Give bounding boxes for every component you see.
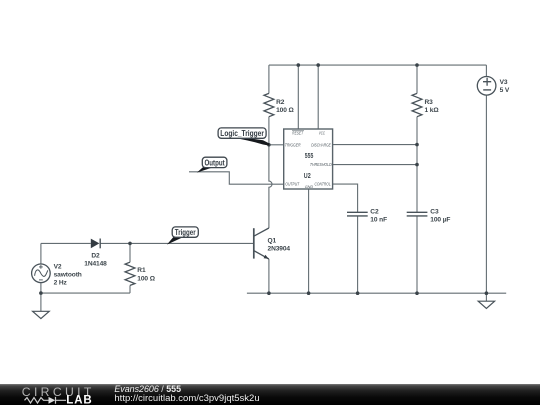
label R2 value xyxy=(276,99,294,114)
svg-text:OUTPUT: OUTPUT xyxy=(285,181,299,187)
wire output pin xyxy=(189,172,284,184)
wire D2 anode xyxy=(41,242,91,244)
svg-text:C2: C2 xyxy=(370,208,379,215)
svg-text:http://circuitlab.com/c3pv9jqt: http://circuitlab.com/c3pv9jqt5sk2u xyxy=(114,393,259,404)
junction top rail R3 xyxy=(415,63,419,67)
svg-text:THRESHOLD: THRESHOLD xyxy=(310,162,332,168)
svg-text:CONTROL: CONTROL xyxy=(315,181,331,187)
wire C3 bottom xyxy=(416,216,418,293)
svg-text:DISCHARGE: DISCHARGE xyxy=(311,142,331,148)
junction gnd pin rail xyxy=(307,291,311,295)
svg-text:555: 555 xyxy=(305,152,314,160)
svg-text:GND: GND xyxy=(305,184,314,189)
svg-text:100 Ω: 100 Ω xyxy=(137,275,155,282)
wire trigger node down with hop over output wire xyxy=(269,145,272,228)
junction C3 rail xyxy=(415,291,419,295)
junction trigger node xyxy=(267,143,271,147)
resistor R2 xyxy=(264,93,274,116)
wire discharge pin xyxy=(333,144,417,146)
wire V2 bottom xyxy=(40,283,42,294)
wire V2 top xyxy=(40,243,42,264)
junction D2 R1 base xyxy=(128,242,132,246)
svg-text:5 V: 5 V xyxy=(500,87,510,94)
svg-text:1 kΩ: 1 kΩ xyxy=(425,107,440,114)
label Q1 value xyxy=(268,238,291,253)
wire V3 bottom xyxy=(485,95,487,293)
svg-text:Q1: Q1 xyxy=(268,238,277,245)
wire V3 top xyxy=(485,65,487,77)
svg-text:C3: C3 xyxy=(430,208,439,215)
wire control pin to C2 xyxy=(333,184,358,212)
junction threshold R3 xyxy=(415,163,419,167)
wire top rail xyxy=(269,64,487,66)
junction top rail vcc xyxy=(316,63,320,67)
wire left bottom rail xyxy=(41,292,130,294)
wire R2 top xyxy=(268,65,270,93)
svg-text:Output: Output xyxy=(205,158,226,167)
label R3 value xyxy=(425,99,440,114)
node Output flag xyxy=(197,157,227,172)
wire trigger stub xyxy=(269,144,284,146)
svg-text:R3: R3 xyxy=(425,99,434,106)
capacitor C3 xyxy=(407,212,428,216)
wire left ground stub xyxy=(40,293,42,311)
footer bar xyxy=(0,384,540,405)
left ground xyxy=(33,311,50,318)
node Logic_Trigger flag xyxy=(218,128,269,146)
svg-text:R1: R1 xyxy=(137,267,146,274)
svg-text:TRIGGER: TRIGGER xyxy=(285,142,301,148)
label V3 value xyxy=(500,79,510,94)
label R1 value xyxy=(137,267,155,282)
wire R1 top xyxy=(129,243,131,262)
svg-text:V2: V2 xyxy=(54,263,62,270)
junction V2 bottom xyxy=(39,291,43,295)
resistor R3 xyxy=(412,93,422,116)
label D2 value xyxy=(84,253,107,268)
wire reset pin xyxy=(297,65,299,129)
junction top rail reset xyxy=(297,63,301,67)
svg-text:LAB: LAB xyxy=(66,394,92,405)
wire gnd pin xyxy=(308,189,310,293)
svg-text:Logic_Trigger: Logic_Trigger xyxy=(220,129,264,138)
junction discharge R3 xyxy=(415,143,419,147)
wire R3 bottom through discharge/threshold to C3 xyxy=(416,117,418,213)
svg-text:100 µF: 100 µF xyxy=(430,216,450,223)
voltage source V3 xyxy=(477,77,496,96)
svg-text:2 Hz: 2 Hz xyxy=(54,279,68,286)
resistor R1 xyxy=(125,262,135,285)
wire C2 bottom xyxy=(357,216,359,293)
svg-text:100 Ω: 100 Ω xyxy=(276,107,294,114)
wire threshold pin xyxy=(333,164,417,166)
svg-text:2N3904: 2N3904 xyxy=(268,246,291,253)
svg-text:sawtooth: sawtooth xyxy=(54,271,82,278)
node Trigger flag xyxy=(167,227,198,245)
junction C2 rail xyxy=(356,291,360,295)
diode D2 xyxy=(91,239,100,249)
svg-text:D2: D2 xyxy=(91,253,100,260)
op-amp U2 555 box xyxy=(284,129,333,189)
svg-text:10 nF: 10 nF xyxy=(370,216,387,223)
label C2 value xyxy=(370,208,387,223)
wire D2 cathode to node xyxy=(100,242,130,244)
svg-text:U2: U2 xyxy=(304,172,311,180)
wire right ground stub xyxy=(485,293,487,301)
wire vcc pin xyxy=(317,65,319,129)
wire Q1 emitter down xyxy=(268,259,270,293)
junction emitter rail xyxy=(267,291,271,295)
op-amp U2 pin labels xyxy=(285,130,332,189)
junction V3 ground rail xyxy=(485,291,489,295)
svg-text:Trigger: Trigger xyxy=(175,228,196,237)
wire R2 bottom to trigger node xyxy=(268,117,270,145)
label C3 value xyxy=(430,208,450,223)
CircuitLab logo xyxy=(22,385,95,405)
voltage source V2 xyxy=(32,264,51,283)
right ground xyxy=(478,301,494,308)
svg-text:VCC: VCC xyxy=(319,131,325,136)
wire bottom rail xyxy=(247,292,506,294)
wire R3 top xyxy=(416,65,418,93)
wire R1 bottom xyxy=(129,285,131,293)
capacitor C2 xyxy=(347,212,368,216)
transistor Q1 xyxy=(254,228,269,259)
svg-text:R2: R2 xyxy=(276,99,285,106)
svg-text:V3: V3 xyxy=(500,79,508,86)
label V2 value xyxy=(54,263,82,286)
wire base from trigger label node xyxy=(130,242,254,244)
svg-text:1N4148: 1N4148 xyxy=(84,261,107,268)
